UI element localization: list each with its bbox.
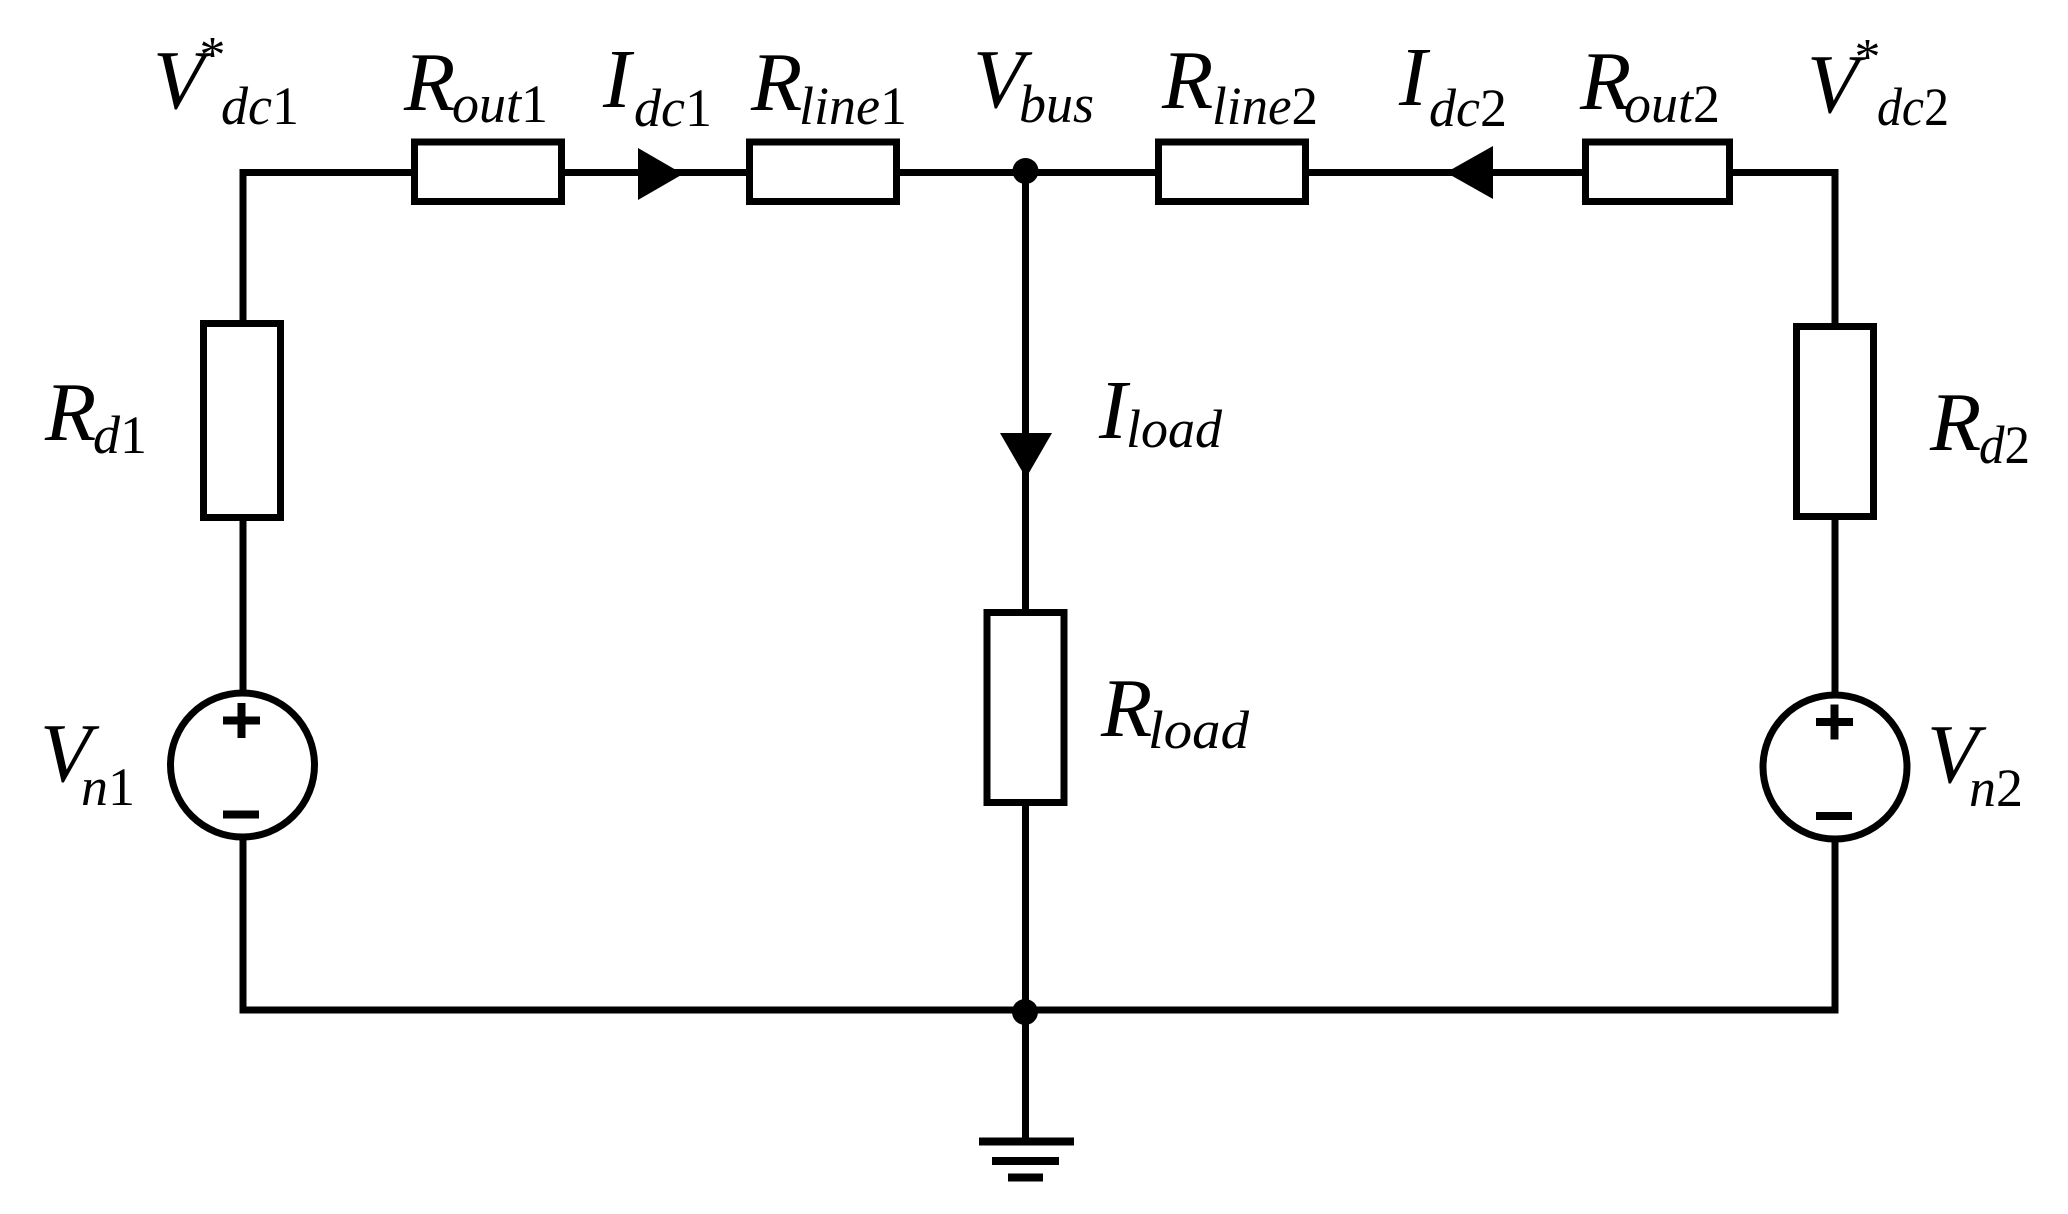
svg-text:R: R xyxy=(1161,34,1213,127)
current Idc2 label xyxy=(1398,31,1507,138)
svg-text:dc2: dc2 xyxy=(1429,78,1507,138)
resistor Rload xyxy=(987,613,1064,803)
resistor Rline1 xyxy=(750,142,897,202)
resistor Rout1 value label xyxy=(403,36,548,134)
svg-text:line1: line1 xyxy=(799,76,907,136)
svg-text:bus: bus xyxy=(1019,74,1094,134)
Vn1 minus sign xyxy=(223,811,259,819)
svg-text:*: * xyxy=(197,27,223,84)
svg-text:*: * xyxy=(1852,29,1878,86)
wire middle branch (Vbus down to ground) xyxy=(1022,173,1029,1143)
source Vn1 label xyxy=(40,707,135,817)
svg-text:line2: line2 xyxy=(1212,76,1318,136)
resistor Rd1 xyxy=(204,324,281,518)
resistor Rd1 value label xyxy=(44,366,147,465)
svg-text:R: R xyxy=(1929,376,1981,469)
svg-text:d1: d1 xyxy=(93,405,147,465)
Vn2 minus sign xyxy=(1816,812,1852,820)
Vn1 plus sign xyxy=(223,703,260,738)
resistor Rout2 value label xyxy=(1579,35,1720,134)
svg-text:R: R xyxy=(44,366,96,459)
resistor Rline2 xyxy=(1159,142,1306,202)
resistor Rload value label xyxy=(1100,662,1250,760)
svg-text:n1: n1 xyxy=(81,757,135,817)
Vn2 plus sign xyxy=(1816,705,1853,740)
resistor Rout2 xyxy=(1586,142,1730,202)
node Vbus junction dot xyxy=(1013,158,1039,184)
svg-text:dc1: dc1 xyxy=(221,76,299,136)
resistor Rline2 value label xyxy=(1161,34,1318,136)
svg-text:dc2: dc2 xyxy=(1877,77,1949,137)
svg-text:n2: n2 xyxy=(1969,758,2023,818)
svg-text:dc1: dc1 xyxy=(634,78,712,138)
source Vn2 label xyxy=(1927,708,2023,818)
svg-text:out2: out2 xyxy=(1624,74,1720,134)
node bottom junction dot xyxy=(1012,999,1038,1025)
svg-text:d2: d2 xyxy=(1979,415,2030,475)
resistor Rout1 xyxy=(415,142,562,202)
node Vbus label xyxy=(973,33,1094,134)
svg-text:load: load xyxy=(1126,399,1223,459)
svg-text:I: I xyxy=(602,33,635,126)
svg-text:R: R xyxy=(1100,662,1152,755)
voltage source Vn2 xyxy=(1763,695,1907,839)
ground xyxy=(979,1142,1074,1178)
svg-text:load: load xyxy=(1148,700,1250,760)
node V*dc2 label xyxy=(1807,29,1949,137)
current Idc1 label xyxy=(602,33,712,138)
resistor Rline1 value label xyxy=(750,36,907,136)
current arrow Idc2 (points left) xyxy=(1446,146,1493,199)
svg-text:out1: out1 xyxy=(452,74,548,134)
current Iload label xyxy=(1098,364,1223,459)
current arrow Idc1 (points right) xyxy=(638,148,683,200)
svg-text:R: R xyxy=(403,36,455,129)
svg-text:I: I xyxy=(1398,31,1431,124)
node V*dc1 label xyxy=(153,27,299,136)
current arrow Iload (points down) xyxy=(1000,433,1052,478)
voltage source Vn1 xyxy=(171,693,315,837)
wire outer loop (top bus, left branch, right branch, bottom return) xyxy=(243,173,1835,1011)
svg-text:R: R xyxy=(750,36,802,129)
resistor Rd2 xyxy=(1797,327,1874,517)
resistor Rd2 value label xyxy=(1929,376,2030,475)
